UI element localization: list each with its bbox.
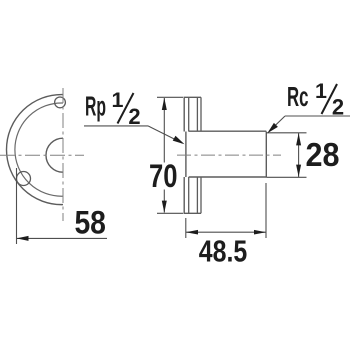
flange back line upper segment (188, 97, 190, 131)
flange top cap (side view) (184, 96, 202, 98)
leader underline Rc (285, 115, 350, 117)
dimension line 48.5 (186, 231, 266, 233)
extension line bottom for 28 (266, 176, 306, 178)
flange outer arc (front view) (6, 95, 63, 205)
extension line top for 70 (157, 96, 183, 98)
svg-text:2: 2 (128, 104, 140, 129)
svg-text:Rc: Rc (287, 81, 309, 112)
hub line lower segment (196, 177, 198, 213)
leader underline Rp (84, 125, 148, 127)
flange bottom cap (side view) (184, 212, 202, 214)
body end face (side view) (265, 132, 267, 178)
dimension line 70 upper (163, 98, 165, 163)
arrow 28 down (296, 165, 301, 177)
leader slope Rc (269, 116, 285, 132)
center boss half-circle (46, 138, 63, 172)
dimension line 28 (298, 133, 300, 177)
svg-text:28: 28 (306, 136, 340, 173)
leader arrow Rc (267, 123, 278, 133)
flange front face line upper (side view) (183, 97, 185, 131)
svg-text:58: 58 (74, 205, 106, 241)
screw hole lower-left (17, 172, 31, 186)
vertical centerline (front view) (62, 88, 64, 221)
pipe axis centerline (side view) (177, 154, 281, 156)
screw hole top (55, 97, 66, 108)
svg-text:Rp: Rp (85, 90, 106, 121)
extension line right for 48.5 (265, 183, 267, 238)
extension line bottom for 70 (157, 212, 183, 214)
horizontal centerline (front view) (0, 154, 84, 156)
arrow 48.5 right (254, 230, 266, 235)
arrow 70 down (162, 201, 167, 213)
fraction slash (Rc 1/2) (322, 84, 338, 114)
flange back line lower segment (188, 177, 190, 213)
arrow 48.5 left (186, 230, 198, 235)
body top line (side view) (189, 130, 267, 132)
hub right edge lower segment (200, 177, 202, 213)
flange front face line lower (side view) (183, 177, 185, 213)
arrow 28 up (296, 133, 301, 145)
dimension line 58 (17, 237, 108, 239)
svg-text:48.5: 48.5 (199, 234, 248, 269)
leader slope Rp (148, 126, 182, 143)
body bottom line (side view) (189, 176, 267, 178)
arrow 70 up (162, 98, 167, 110)
svg-text:1: 1 (112, 88, 124, 112)
svg-text:70: 70 (149, 158, 178, 194)
extension line top for 28 (266, 132, 306, 134)
arrow 58 left (17, 236, 29, 241)
svg-text:1: 1 (315, 79, 327, 103)
dimension line 70 lower (163, 190, 165, 213)
hub right edge upper segment (200, 97, 202, 131)
flange inner arc (front view) (15, 103, 63, 196)
hub line upper segment (196, 97, 198, 131)
fraction slash (Rp 1/2) (118, 93, 134, 124)
extension line left for 48.5 (185, 218, 187, 238)
socket face line middle (side view) (185, 132, 187, 178)
leader arrow Rp (173, 136, 185, 144)
extension line for 58 (16, 168, 18, 244)
